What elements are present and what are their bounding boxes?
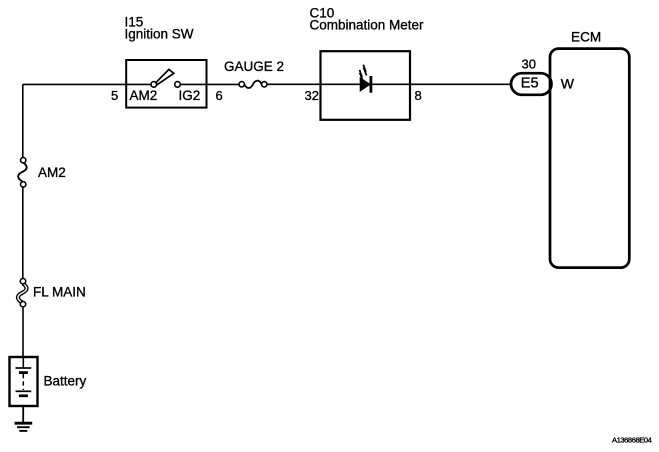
wire: top horizontal from left corner to ignition switch pin 5 xyxy=(23,83,126,85)
svg-text:GAUGE 2: GAUGE 2 xyxy=(224,59,284,74)
battery xyxy=(10,357,38,406)
label FL MAIN xyxy=(33,285,86,300)
svg-text:32: 32 xyxy=(305,88,319,103)
svg-text:A136868E04: A136868E04 xyxy=(612,436,652,445)
pin 32 xyxy=(305,88,319,103)
fuse AM2 xyxy=(18,158,27,188)
pin 8 xyxy=(415,88,422,103)
wire: box left edge to switch contact AM2 xyxy=(126,83,151,85)
svg-text:Combination Meter: Combination Meter xyxy=(310,18,425,33)
wire: ignition switch to fuse GAUGE 2 xyxy=(207,83,240,85)
label Battery xyxy=(44,374,87,389)
svg-text:Ignition SW: Ignition SW xyxy=(125,27,194,42)
label I15 / Ignition SW xyxy=(125,14,194,41)
label GAUGE 2 xyxy=(224,59,284,74)
svg-text:IG2: IG2 xyxy=(179,88,201,103)
switch contact AM2 xyxy=(151,82,157,88)
svg-text:AM2: AM2 xyxy=(38,165,66,180)
svg-text:8: 8 xyxy=(415,88,422,103)
label ECM xyxy=(571,30,601,45)
wire: vertical between fuse AM2 and fusible link FL MAIN xyxy=(22,187,24,278)
svg-text:ECM: ECM xyxy=(571,30,601,45)
svg-text:W: W xyxy=(561,75,575,91)
ignition switch I15 box xyxy=(126,60,206,108)
switch lever xyxy=(156,69,174,84)
combination meter C10 box xyxy=(321,51,411,120)
wire: through combination meter box xyxy=(321,83,411,85)
label IG2 (contact) xyxy=(179,88,201,103)
fuse GAUGE 2 xyxy=(239,81,267,88)
pin 6 xyxy=(216,88,223,103)
pin 5 xyxy=(111,88,118,103)
LED indicator lamp xyxy=(360,65,371,93)
label W (wire color) xyxy=(561,75,575,91)
wire: combination meter pin 8 to connector E5 xyxy=(410,83,512,85)
ECM box xyxy=(550,49,629,268)
label C10 / Combination Meter xyxy=(310,6,425,33)
switch contact IG2 xyxy=(175,82,181,88)
svg-text:AM2: AM2 xyxy=(130,88,158,103)
pin 30 xyxy=(522,57,536,72)
svg-text:E5: E5 xyxy=(521,75,539,91)
wire: vertical between FL MAIN and battery xyxy=(22,307,24,357)
svg-text:Battery: Battery xyxy=(44,374,87,389)
label AM2 xyxy=(38,165,66,180)
wire: fuse GAUGE 2 to combination meter pin 32 xyxy=(267,83,321,85)
drawing code A136868E04 xyxy=(612,436,652,445)
ground xyxy=(15,423,33,431)
label AM2 (contact) xyxy=(130,88,158,103)
wire: contact IG2 to box right edge xyxy=(180,83,206,85)
svg-text:6: 6 xyxy=(216,88,223,103)
svg-text:30: 30 xyxy=(522,57,536,72)
wire: vertical left drop from corner to fuse AM2 xyxy=(22,84,24,157)
fusible link FL MAIN xyxy=(18,279,27,307)
connector E5 xyxy=(511,73,552,95)
svg-text:FL MAIN: FL MAIN xyxy=(33,285,86,300)
svg-text:5: 5 xyxy=(111,88,118,103)
wire: battery to ground xyxy=(22,406,24,422)
